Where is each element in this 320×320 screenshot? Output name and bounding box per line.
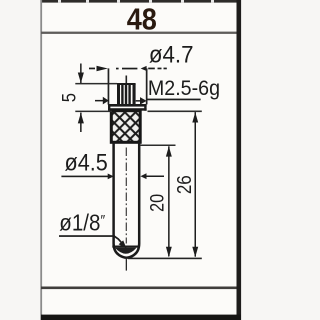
dim 26: bottom arrow [192, 247, 198, 257]
dim ø1/8": leader [59, 235, 127, 248]
dim 5: bottom extension line [75, 111, 112, 113]
flange disc (ø4.7) [108, 104, 147, 111]
content box interior [41, 0, 241, 320]
top border [41, 0, 241, 3]
dim 26: dimension line [195, 112, 197, 257]
stem dash-dot centerline [125, 148, 127, 244]
dim 20: dimension line [168, 146, 170, 256]
dim 20: top arrow [166, 146, 172, 156]
ball lower dark segment [115, 248, 137, 254]
M2.5-6g shelf line [147, 99, 201, 101]
bottom black bar [41, 315, 241, 320]
left border [40, 0, 42, 320]
svg-text:ø4.5: ø4.5 [65, 149, 108, 176]
drawing box bottom line [41, 287, 237, 290]
dim ø4.7: left extension line [108, 68, 110, 104]
knurled grip [111, 111, 140, 143]
svg-text:ø1/8″: ø1/8″ [59, 209, 105, 236]
dim 5: top extension line [75, 83, 117, 85]
tip extension line [128, 258, 202, 260]
dim 20: bottom arrow [166, 247, 172, 257]
svg-text:48: 48 [127, 3, 157, 37]
dim ø4.7: right extension line [146, 68, 148, 104]
dim 26: top extension line [148, 111, 202, 113]
svg-text:5: 5 [58, 93, 80, 102]
dim ø4.5: right counter arrow [140, 173, 164, 179]
svg-text:ø4.7: ø4.7 [149, 41, 194, 68]
centerline below tip [126, 259, 127, 271]
thread stud M2.5 [117, 83, 136, 105]
dim ø4.7: dimension line [89, 66, 167, 72]
M2.5 right arrow [136, 97, 147, 105]
dim 26: top arrow [192, 112, 198, 122]
svg-text:26: 26 [173, 175, 196, 194]
dim 5: dimension line + arrows [78, 64, 84, 133]
chord line at ball [112, 246, 140, 248]
dim 20: top extension line [141, 145, 176, 147]
right border [237, 0, 242, 320]
stem outline with dome tip [114, 142, 140, 257]
svg-text:M2.5-6g: M2.5-6g [148, 76, 220, 100]
M2.5 left arrow [95, 97, 109, 105]
svg-text:20: 20 [146, 194, 168, 212]
dim ø4.5: leader with arrow [61, 174, 113, 180]
centerline stub above stud [126, 76, 128, 85]
title separator line [41, 32, 237, 34]
